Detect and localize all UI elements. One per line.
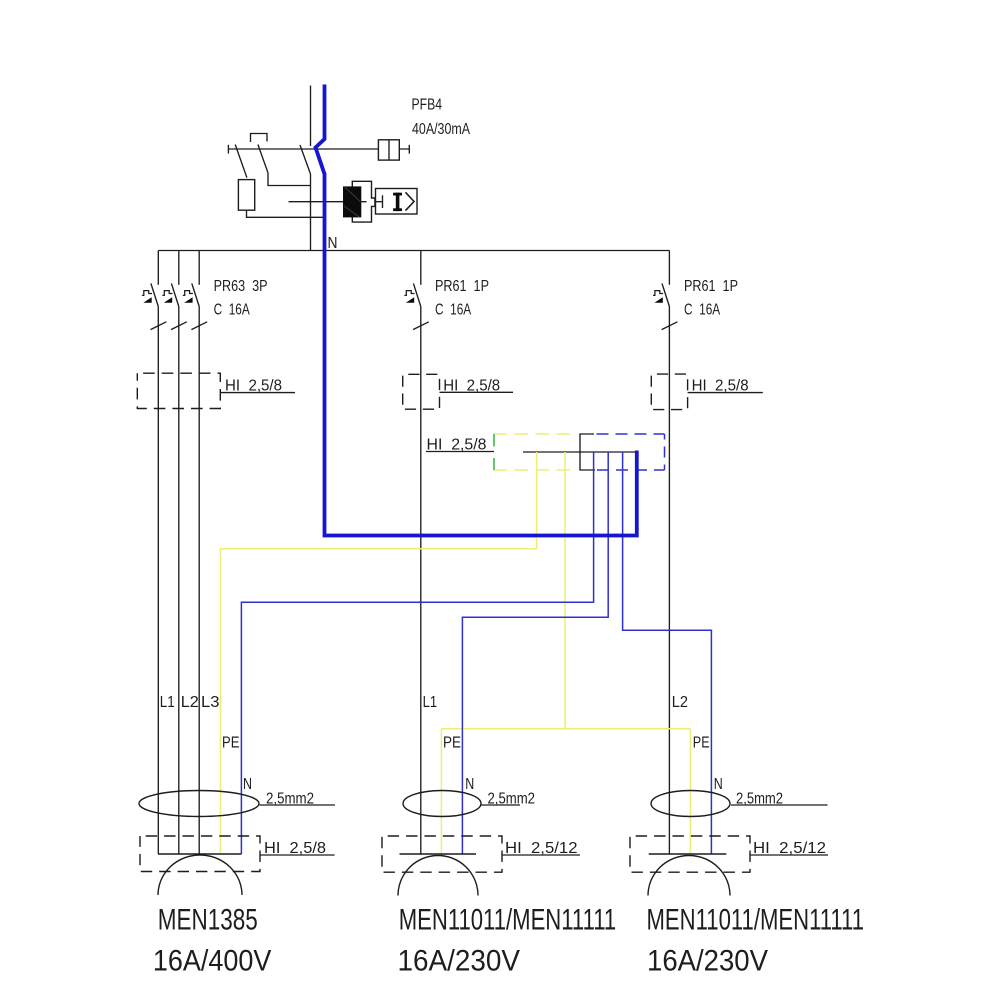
svg-text:PE: PE — [693, 735, 710, 752]
socket arc circuit 2 — [398, 856, 478, 896]
wire PE manifold (yellow) — [441, 728, 690, 730]
trip relay input bar — [376, 195, 383, 208]
svg-text:MEN11011/MEN11111: MEN11011/MEN11111 — [647, 904, 865, 937]
test button box divider — [388, 140, 390, 160]
svg-text:40A/30mA: 40A/30mA — [412, 121, 471, 138]
svg-text:PE: PE — [443, 735, 461, 752]
test button box — [378, 140, 399, 160]
svg-text:N: N — [465, 776, 474, 793]
breaker Q2 (PR61 1P) — [404, 251, 428, 855]
wire pole 3 down to bus — [310, 174, 312, 251]
switch blade pole 1 — [235, 145, 247, 178]
wire junction feed (black) — [523, 451, 637, 453]
svg-text:MEN1385: MEN1385 — [158, 904, 258, 937]
wire N circuit 2 (blue) — [462, 452, 608, 854]
cable ellipse circuit 2 — [403, 791, 481, 817]
svg-text:N: N — [243, 776, 252, 793]
svg-text:PE: PE — [222, 735, 239, 752]
wire N circuit 1 (blue) — [241, 452, 593, 854]
leader 2,5mm2 circuit 1 — [260, 804, 336, 806]
conduit box HI 2,5/8 (bottom left) — [140, 836, 260, 872]
svg-text:L2: L2 — [181, 694, 199, 711]
svg-text:16A/230V: 16A/230V — [398, 945, 521, 978]
node left terminal tick — [227, 145, 229, 154]
wire PE circuit 1 (yellow) — [220, 452, 536, 854]
svg-text:16A/400V: 16A/400V — [153, 945, 272, 978]
svg-text:N: N — [328, 235, 338, 252]
wire PE circuit 2 (yellow) — [440, 729, 442, 854]
node right terminal tick — [408, 145, 410, 154]
svg-text:2,5mm2: 2,5mm2 — [736, 791, 783, 808]
svg-text:PFB4: PFB4 — [412, 97, 443, 114]
wire coil to neutral — [247, 210, 324, 217]
wire N main feed (thick blue) — [316, 85, 637, 536]
trip relay box I> — [376, 189, 418, 215]
cable ellipse circuit 3 — [651, 791, 730, 817]
current transformer outline box — [352, 181, 375, 222]
svg-text:16A/230V: 16A/230V — [647, 945, 768, 978]
svg-text:PR61 1P: PR61 1P — [435, 278, 489, 295]
wire pole 2 link — [268, 173, 311, 186]
trip relay chevron — [406, 192, 415, 210]
conduit box HI 2,5/12 (bottom right) — [630, 836, 750, 872]
svg-text:2,5mm2: 2,5mm2 — [488, 791, 536, 808]
socket arc circuit 1 — [158, 855, 242, 895]
wire incoming line top — [310, 86, 312, 147]
current transformer core (black) — [343, 186, 361, 217]
terminal bar circuit 3 — [649, 853, 727, 855]
svg-text:2,5mm2: 2,5mm2 — [266, 791, 314, 808]
wire current transformer lead — [289, 201, 367, 203]
svg-text:L1: L1 — [423, 694, 438, 711]
terminal bar circuit 1 — [158, 853, 242, 855]
wire N distribution bus — [158, 250, 669, 252]
core hatch — [344, 187, 361, 217]
cable ellipse circuit 1 — [139, 791, 259, 817]
wire N circuit 3 (blue) — [623, 452, 712, 854]
conduit box HI 2,5/8 (right) — [651, 374, 687, 410]
coil K1 (RCD trip coil) — [238, 180, 254, 211]
PE box green corner stubs — [493, 434, 495, 470]
wire RCD bus line — [228, 148, 409, 150]
leader 2,5mm2 circuit 2 — [481, 804, 520, 806]
breaker Q1 pole L3 — [183, 251, 207, 855]
svg-text:PR61 1P: PR61 1P — [684, 278, 738, 295]
svg-text:L1: L1 — [160, 694, 175, 711]
svg-text:PR63 3P: PR63 3P — [214, 278, 268, 295]
switch blade pole 3 — [300, 145, 311, 174]
svg-text:C 16A: C 16A — [684, 302, 721, 319]
svg-text:L2: L2 — [672, 694, 688, 711]
svg-text:C 16A: C 16A — [214, 302, 251, 319]
N distribution box frame (black part) — [580, 434, 595, 470]
svg-text:N: N — [714, 776, 723, 793]
wire PE circuit 3 (yellow) — [689, 729, 691, 854]
svg-text:MEN11011/MEN11111: MEN11011/MEN11111 — [399, 904, 617, 937]
conduit box HI 2,5/8 (left) — [137, 373, 220, 408]
trip relay I glyph — [393, 193, 402, 211]
breaker Q1 pole L2 — [162, 251, 186, 855]
socket arc circuit 3 — [648, 856, 730, 896]
conduit box HI 2,5/12 (bottom mid) — [382, 836, 502, 872]
mechanical link bracket — [251, 134, 268, 143]
svg-text:L3: L3 — [201, 694, 220, 711]
terminal bar circuit 2 — [400, 853, 477, 855]
conduit box HI 2,5/8 (mid) — [403, 374, 440, 409]
breaker Q1 pole L1 (PR63 3P) — [142, 251, 166, 855]
switch blade pole 2 — [258, 145, 268, 173]
leader 2,5mm2 circuit 3 — [731, 804, 828, 806]
wire PE feed circuits 2+3 (yellow) — [564, 452, 566, 729]
PE distribution box (yellow-green dashed) — [494, 434, 578, 470]
N distribution box (blue dashed) — [597, 434, 665, 470]
breaker Q3 (PR61 1P) — [653, 251, 677, 855]
svg-text:C 16A: C 16A — [435, 302, 472, 319]
